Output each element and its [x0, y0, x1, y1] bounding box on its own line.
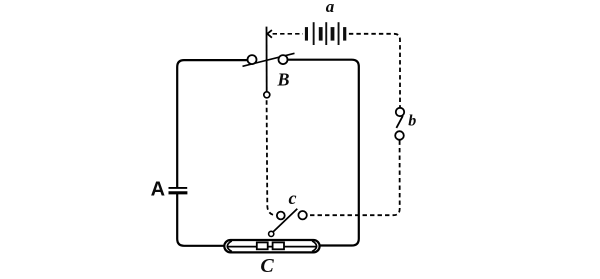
tube C envelope: [224, 240, 319, 252]
contact b upper circle: [396, 108, 404, 116]
switch B right contact: [279, 55, 288, 64]
wire: dashed link from switch B rod down to switch c: [267, 100, 277, 215]
wire: left edge below capacitor A, bottom-left corner, bottom edge to tube C: [177, 194, 224, 246]
arrow head on battery lead: [267, 30, 272, 38]
wire: dashed lead battery to corner and down to contact b: [349, 34, 400, 108]
tube C right electrode: [273, 242, 284, 249]
tube C left electrode: [257, 242, 268, 249]
switch c pivot circle: [269, 231, 274, 236]
wire: tube C right end, bottom-right corner, right edge, top edge to switch B: [288, 60, 359, 246]
contact b blade: [396, 116, 402, 128]
switch B actuating rod: [266, 27, 268, 92]
wire: dashed lead from b down and left to switch c: [307, 141, 400, 216]
svg-text:B: B: [276, 70, 289, 90]
svg-text:A: A: [151, 178, 165, 200]
svg-text:b: b: [408, 113, 416, 130]
tube C inner left cap arc: [227, 241, 232, 252]
battery a plates: [305, 22, 346, 45]
capacitor A top plate: [169, 187, 188, 189]
switch c blade: [272, 209, 297, 233]
contact b lower circle: [395, 131, 404, 140]
tube C inner right cap arc: [312, 241, 317, 252]
switch B left contact: [248, 55, 257, 64]
switch B blade: [243, 53, 295, 66]
switch c right contact: [298, 211, 306, 219]
svg-text:a: a: [326, 0, 335, 16]
switch c left contact: [277, 212, 285, 220]
tube C center conductor: [228, 246, 316, 248]
svg-text:c: c: [289, 188, 297, 208]
switch B rod end circle: [264, 92, 270, 98]
wire: dashed battery lead, arrow to battery: [273, 33, 303, 35]
wire: top-left + left edge of solid loop down to capacitor A: [177, 60, 247, 187]
svg-text:C: C: [260, 255, 274, 277]
capacitor A bottom plate: [169, 191, 188, 194]
